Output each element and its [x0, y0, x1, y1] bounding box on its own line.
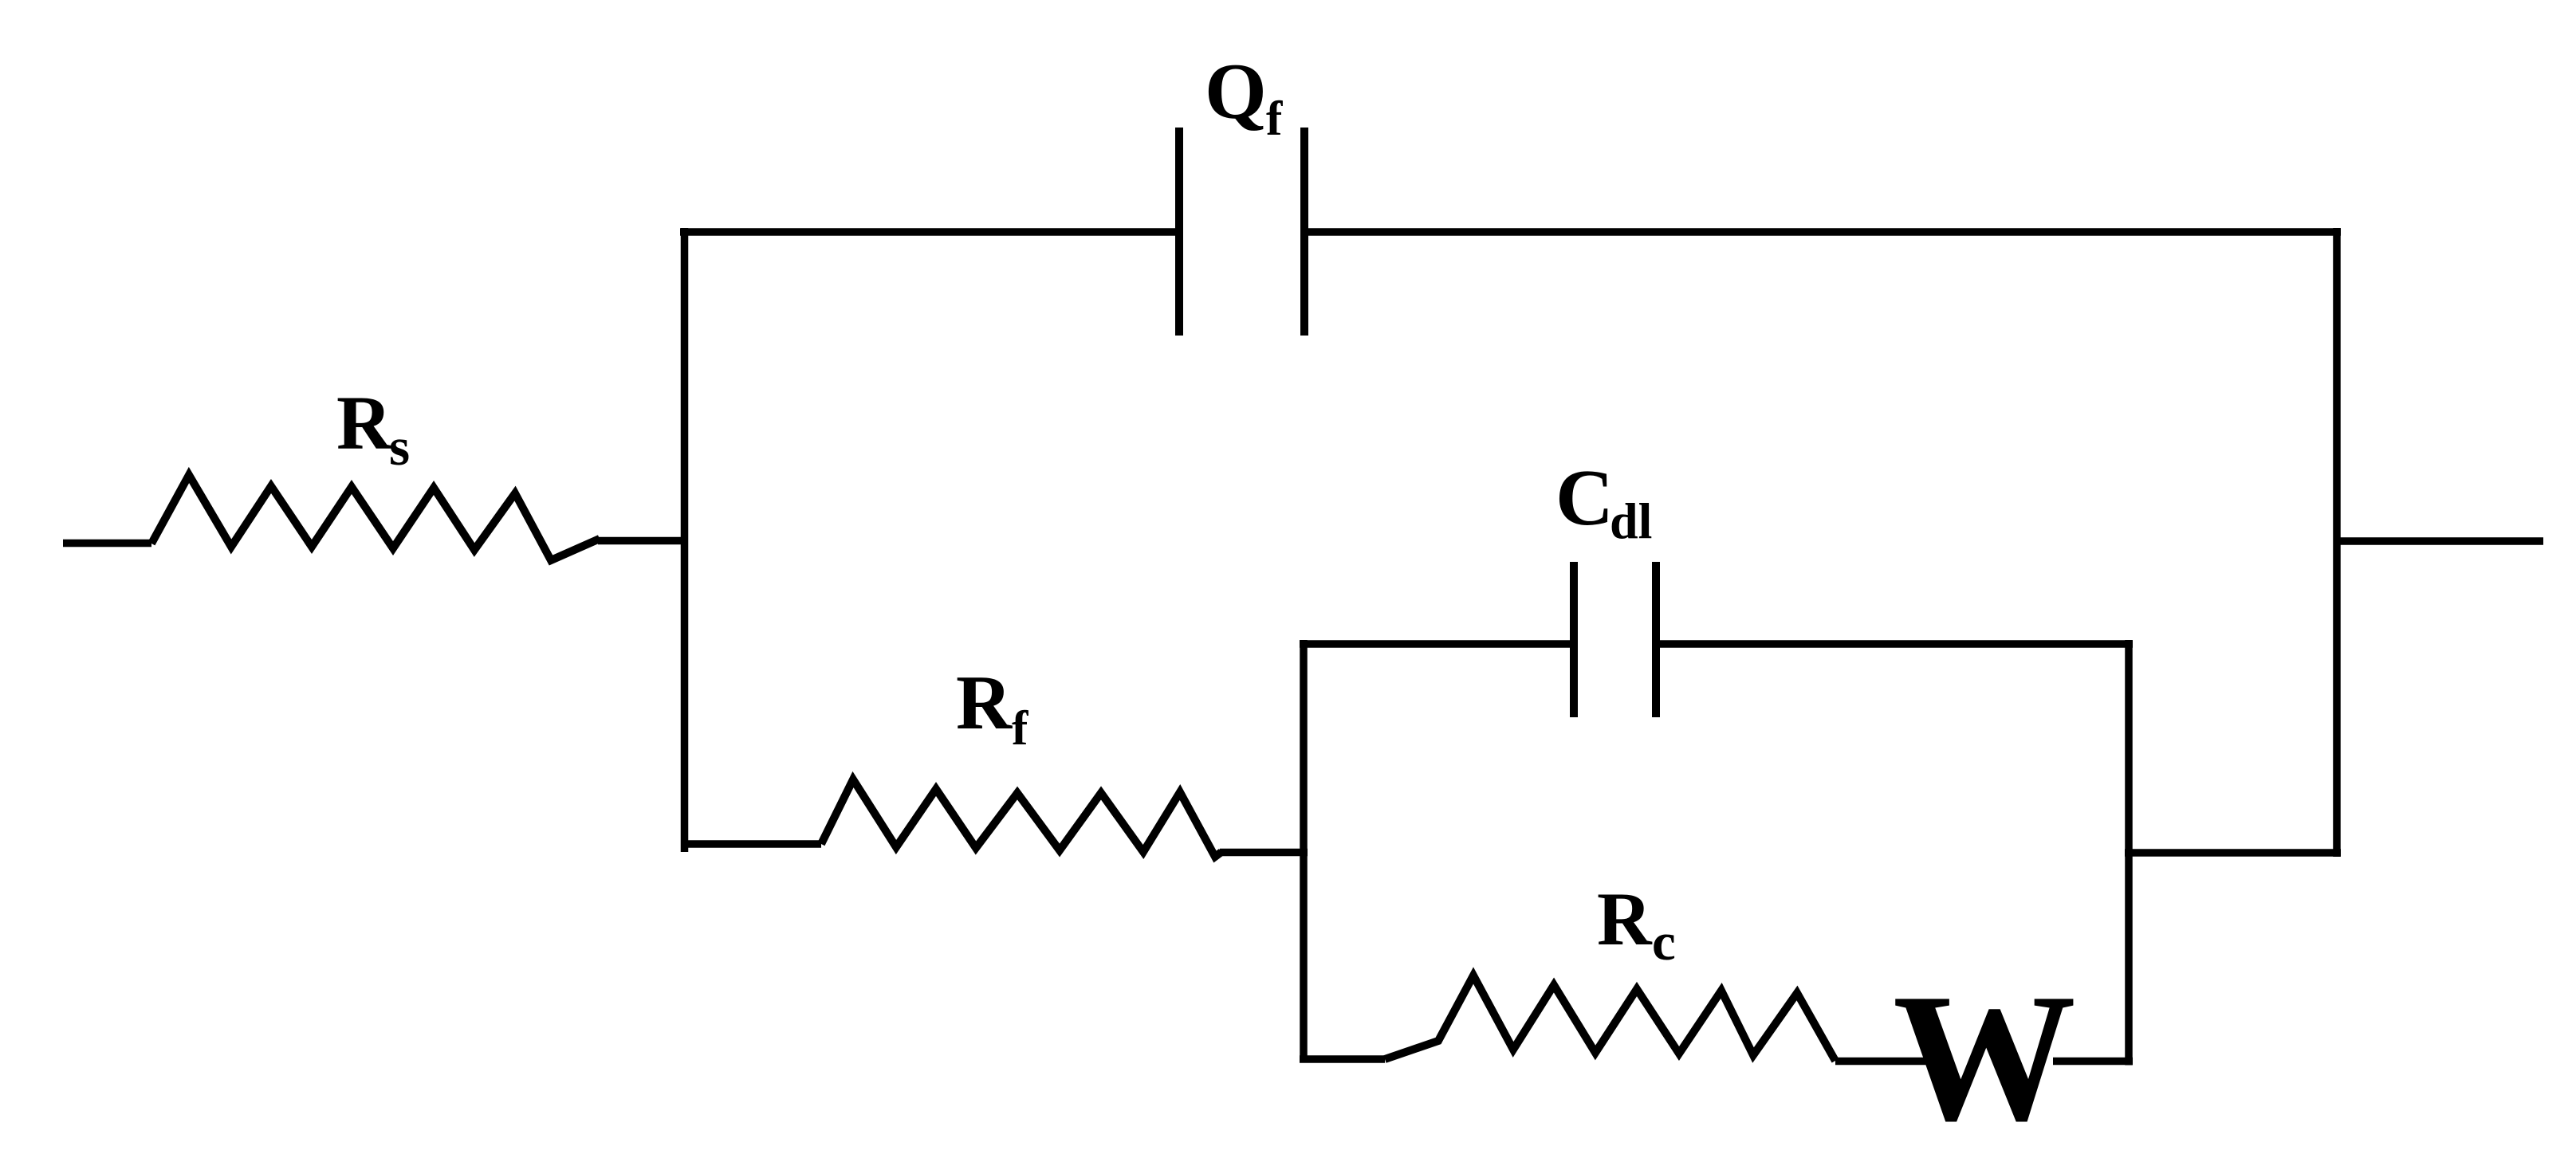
wire: left input terminal: [63, 540, 151, 548]
svg-text:Q: Q: [1205, 47, 1267, 135]
wire: inner top branch, left segment: [1300, 640, 1570, 648]
wire: Rf to node B: [1220, 849, 1308, 857]
svg-text:dl: dl: [1610, 493, 1652, 549]
svg-text:c: c: [1652, 913, 1676, 971]
label Rf: [956, 660, 1028, 756]
resistor Rs (zigzag): [151, 475, 600, 560]
svg-text:R: R: [1597, 877, 1653, 961]
node C: inner parallel right rail (vertical): [2125, 640, 2133, 1066]
svg-text:s: s: [389, 418, 410, 477]
wire: Rs to node A: [598, 537, 688, 545]
svg-text:f: f: [1012, 702, 1028, 756]
wire: top branch, left segment: [680, 228, 1175, 236]
wire: inner bottom branch, node B to Rc: [1300, 1055, 1385, 1063]
capacitor Qf: left plate: [1175, 128, 1183, 336]
capacitor Cdl: right plate: [1652, 562, 1660, 717]
svg-text:f: f: [1266, 92, 1283, 146]
node D: outer parallel right rail (vertical): [2333, 228, 2341, 857]
resistor Rf (zigzag): [821, 779, 1221, 857]
svg-text:R: R: [336, 380, 393, 465]
label Qf: [1205, 47, 1283, 146]
label Cdl: [1555, 453, 1652, 549]
wire: Rf branch, node A to Rf: [684, 840, 821, 848]
node A: outer parallel left rail (vertical): [681, 228, 689, 852]
wire: inner box to outer right rail: [2125, 849, 2341, 857]
capacitor Qf: right plate: [1300, 128, 1308, 336]
wire: Rc to Warburg element: [1835, 1058, 1933, 1066]
svg-text:W: W: [1893, 956, 2076, 1154]
wire: right output terminal: [2337, 537, 2543, 545]
label Rs: [336, 380, 410, 477]
capacitor Cdl: left plate: [1570, 562, 1578, 717]
svg-text:R: R: [956, 660, 1013, 745]
node B: inner parallel left rail (vertical): [1300, 640, 1308, 1063]
wire: inner top branch, right segment: [1660, 640, 2133, 648]
resistor Rc (zigzag): [1385, 975, 1835, 1061]
wire: top branch, right segment: [1308, 228, 2341, 236]
wire: Warburg element to node C: [2053, 1058, 2133, 1066]
label Rc: [1597, 877, 1676, 971]
svg-text:C: C: [1555, 453, 1614, 542]
